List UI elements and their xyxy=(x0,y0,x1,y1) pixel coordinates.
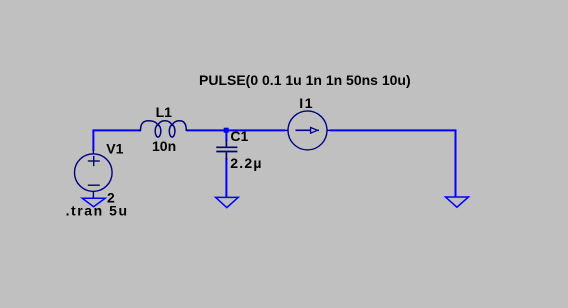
svg-text:2.2µ: 2.2µ xyxy=(230,155,262,171)
svg-text:PULSE(0 0.1 1u 1n 1n 50ns 10u): PULSE(0 0.1 1u 1n 1n 50ns 10u) xyxy=(199,72,411,88)
wire from V1 top to inductor L1 xyxy=(93,130,141,151)
wire from I1 right to corner and down to ground xyxy=(330,130,456,197)
ground below C1 xyxy=(216,197,239,207)
inductor L1 xyxy=(139,121,189,137)
svg-text:L1: L1 xyxy=(156,104,173,120)
wire from node N001 down to C1 xyxy=(225,131,227,141)
current source I1 xyxy=(285,111,331,150)
junction node N001 xyxy=(224,128,229,133)
ground below V1 xyxy=(82,198,105,207)
svg-text:I1: I1 xyxy=(299,95,314,111)
capacitor C1 xyxy=(216,140,237,160)
svg-text:V1: V1 xyxy=(106,141,123,157)
wire from C1 bottom to ground xyxy=(225,158,227,198)
voltage source V1 xyxy=(75,150,113,198)
svg-text:.tran 5u: .tran 5u xyxy=(66,203,129,219)
svg-text:10n: 10n xyxy=(152,138,176,154)
ground at right end xyxy=(446,197,469,207)
wire from L1 to I1 through node N001 xyxy=(187,129,285,131)
svg-text:C1: C1 xyxy=(230,128,248,144)
